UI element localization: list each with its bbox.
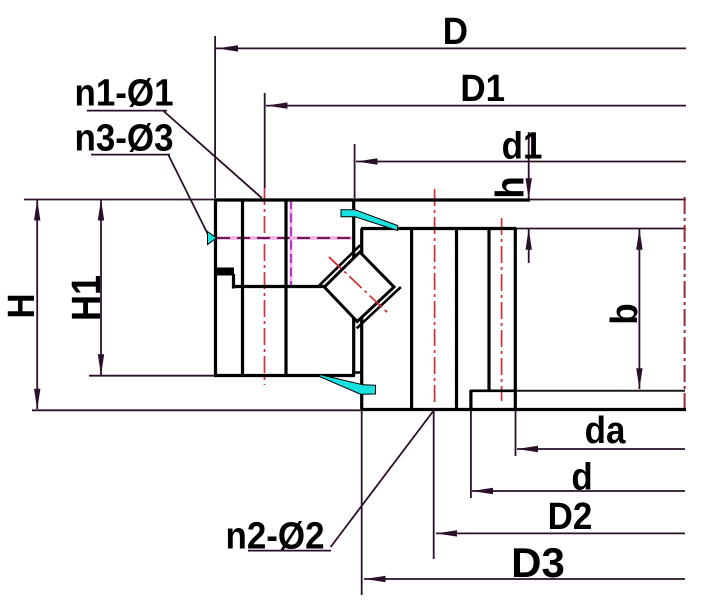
svg-text:D: D xyxy=(443,10,468,53)
svg-text:b: b xyxy=(603,303,646,324)
svg-text:D1: D1 xyxy=(460,67,505,110)
svg-text:H1: H1 xyxy=(64,275,110,321)
svg-text:d: d xyxy=(571,455,592,498)
svg-text:H: H xyxy=(0,293,42,318)
svg-text:D3: D3 xyxy=(511,539,565,586)
svg-text:n3-Ø3: n3-Ø3 xyxy=(74,116,173,159)
svg-text:n1-Ø1: n1-Ø1 xyxy=(74,71,173,114)
svg-text:n2-Ø2: n2-Ø2 xyxy=(225,514,324,557)
svg-text:h: h xyxy=(488,176,533,198)
svg-text:D2: D2 xyxy=(548,495,593,538)
svg-text:d1: d1 xyxy=(502,124,543,167)
svg-text:da: da xyxy=(585,409,626,452)
